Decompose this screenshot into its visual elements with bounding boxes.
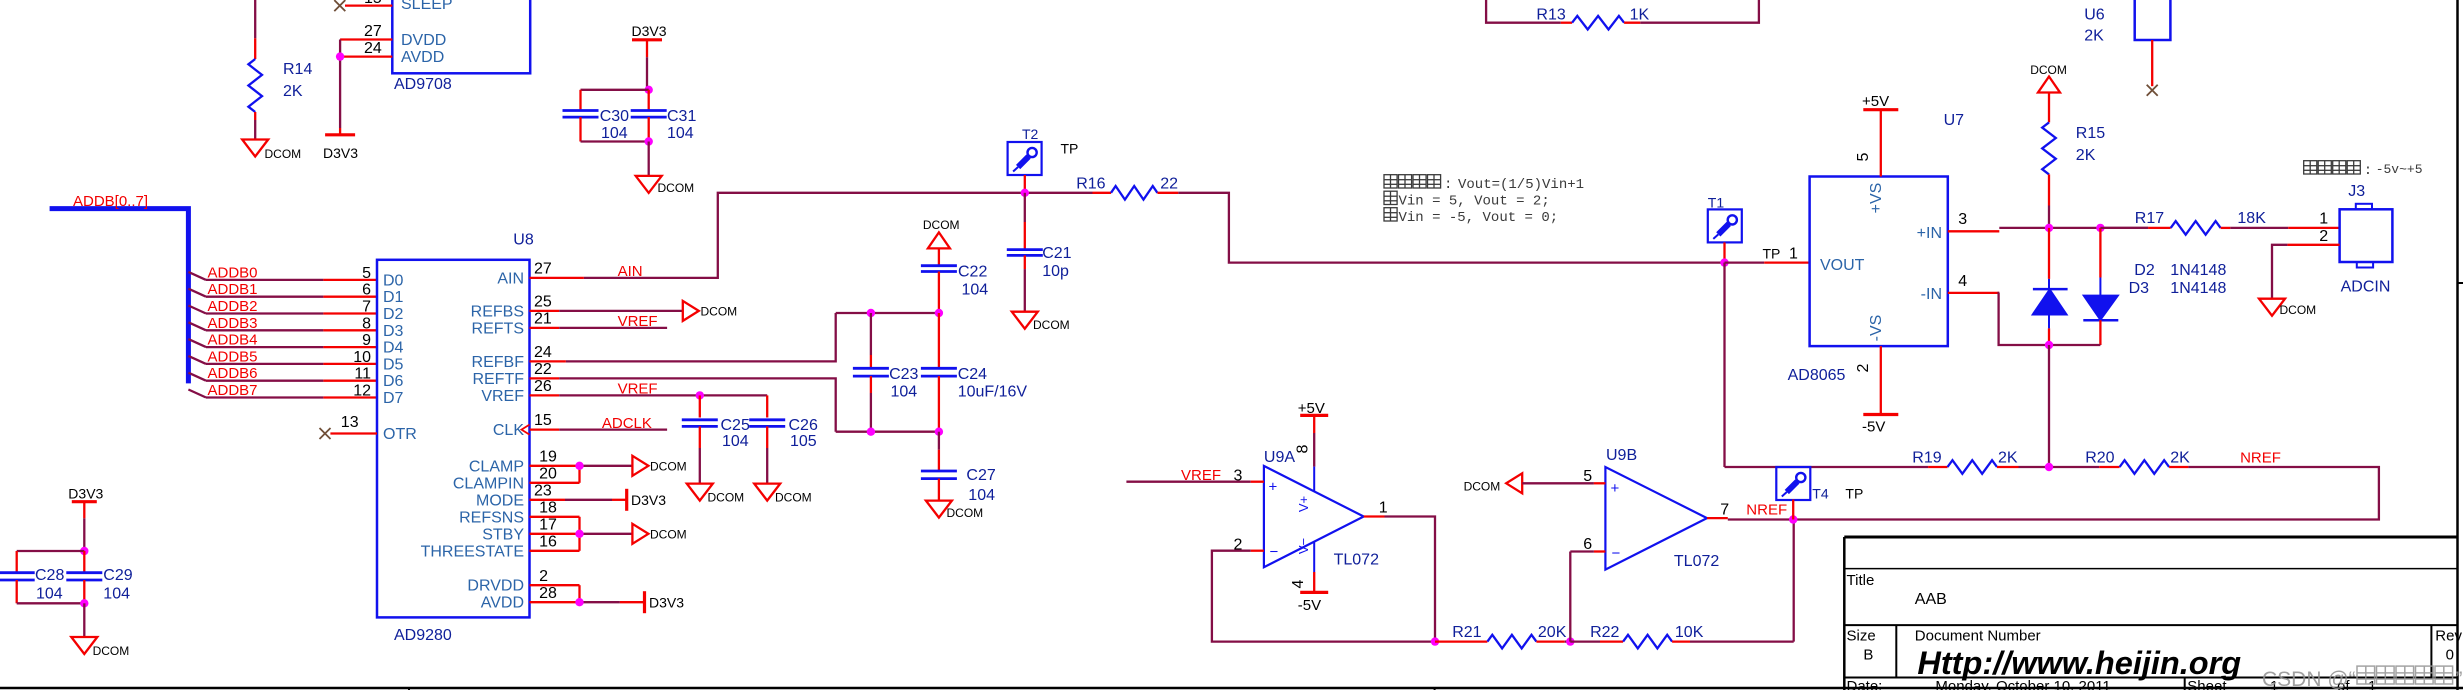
svg-text:Vin = -5, Vout = 0;: Vin = -5, Vout = 0; — [1399, 210, 1559, 226]
svg-text:R22: R22 — [1590, 624, 1619, 641]
power DCOM arrow up (C22) — [923, 218, 960, 266]
svg-text:4: 4 — [1958, 273, 1967, 290]
svg-text:CSDN @“: CSDN @“ — [2262, 668, 2356, 690]
svg-text:U7: U7 — [1944, 112, 1965, 129]
svg-text:-5V: -5V — [1298, 597, 1321, 614]
pin 23 wire MODE to D3V3 — [530, 482, 667, 510]
svg-text:10K: 10K — [1675, 624, 1704, 641]
svg-text:AIN: AIN — [497, 270, 524, 287]
power D3V3 (C28/C29) — [68, 485, 103, 551]
junction pin19 — [575, 462, 583, 470]
junction NREF/T4 — [1789, 515, 1797, 523]
pin 7 output NREF (U9B) — [1707, 502, 1793, 520]
wire R13 right — [1640, 0, 1759, 23]
wire +IN net — [1999, 227, 2148, 229]
svg-text:3: 3 — [1233, 468, 1242, 485]
svg-text:26: 26 — [534, 378, 552, 395]
svg-text:TL072: TL072 — [1674, 553, 1719, 570]
junction C30/C31 top — [645, 86, 653, 94]
svg-text:DCOM: DCOM — [650, 459, 687, 473]
svg-text:24: 24 — [534, 344, 552, 361]
wire top rail (C23/C24) — [836, 312, 939, 314]
resistor R13 1K — [1536, 7, 1649, 30]
svg-text:D3V3: D3V3 — [632, 23, 667, 39]
wire ADDB5 (pin 10) — [188, 348, 377, 366]
svg-text:DCOM: DCOM — [650, 527, 687, 541]
svg-text:AD8065: AD8065 — [1788, 367, 1846, 384]
junction AVDD — [336, 52, 344, 60]
wire J3 pin 2 to ground — [2272, 228, 2340, 299]
wire top to C30 — [581, 90, 649, 111]
svg-text:1: 1 — [1379, 500, 1388, 517]
pin 6 wire (U9B) — [1570, 536, 1605, 642]
svg-text:ADCIN: ADCIN — [2341, 279, 2391, 296]
svg-text:-IN: -IN — [1921, 286, 1942, 303]
wire bottom rail (C23/C24) — [836, 431, 939, 433]
svg-text:2: 2 — [539, 568, 548, 585]
svg-text:104: 104 — [891, 384, 918, 401]
svg-text:V+: V+ — [1296, 496, 1311, 512]
ground DCOM (C25) — [687, 484, 744, 505]
power D3V3 (C30/C31) — [632, 23, 667, 57]
svg-text:2: 2 — [2319, 228, 2328, 245]
svg-text:27: 27 — [534, 261, 552, 278]
wire ADDB2 (pin 7) — [188, 298, 377, 316]
svg-text:C31: C31 — [667, 108, 696, 125]
pin 3 stub (U9A) — [1233, 468, 1263, 485]
svg-text:REFBF: REFBF — [472, 354, 525, 371]
wire -IN to diode rail — [1999, 293, 2101, 345]
power +5V (U7) — [1855, 93, 1898, 177]
svg-text:NREF: NREF — [1746, 502, 1787, 519]
resistor R22 10K — [1570, 624, 1793, 648]
svg-text:22: 22 — [534, 361, 552, 378]
svg-text:25: 25 — [534, 294, 552, 311]
svg-text:VREF: VREF — [618, 313, 658, 330]
svg-text:10p: 10p — [1042, 263, 1069, 280]
svg-text:20: 20 — [539, 465, 557, 482]
svg-text:TP: TP — [1845, 486, 1863, 502]
svg-text:-5v~+5: -5v~+5 — [2376, 162, 2423, 177]
pin 3 stub +IN — [1948, 211, 2000, 231]
IC U8 AD9280 — [377, 232, 534, 645]
svg-text:TP: TP — [1763, 246, 1781, 262]
svg-text:19: 19 — [539, 448, 557, 465]
svg-text:DCOM: DCOM — [708, 491, 745, 505]
svg-text:R16: R16 — [1076, 176, 1105, 193]
junction +IN/D3 — [2096, 224, 2104, 232]
svg-text:AVDD: AVDD — [401, 49, 444, 66]
svg-text:5: 5 — [1855, 152, 1872, 161]
svg-text:ADCLK: ADCLK — [602, 415, 652, 432]
resistor R14 2K — [248, 38, 312, 120]
svg-text:−: − — [1612, 545, 1621, 562]
capacitor C25 104 — [682, 395, 750, 483]
svg-text:7: 7 — [362, 299, 371, 316]
junction pin17 — [575, 530, 583, 538]
testpoint T4 — [1776, 467, 1863, 520]
pin 1 output (U9A) — [1364, 500, 1435, 642]
pin 13 OTR no-connect — [320, 414, 378, 439]
pin 22 wire REFTF — [530, 361, 836, 432]
svg-text:104: 104 — [103, 585, 130, 602]
svg-text:27: 27 — [364, 23, 382, 40]
svg-text:−: − — [1270, 544, 1279, 561]
ground DCOM (C21) — [1012, 312, 1070, 332]
resistor R17 18K — [2100, 210, 2266, 235]
wire VOUT down to R19 row — [1723, 263, 1725, 467]
wire diode rail down to R19 row — [2048, 345, 2050, 467]
svg-text:18: 18 — [539, 499, 557, 516]
svg-text:15: 15 — [534, 412, 552, 429]
svg-text:DCOM: DCOM — [265, 147, 302, 161]
no-connect X (U6) — [2147, 85, 2158, 96]
power DCOM arrow (pin 19) — [632, 456, 686, 476]
svg-text:Title: Title — [1847, 572, 1875, 589]
junction R21/R22/U9B pin6 — [1566, 637, 1574, 645]
svg-text:C24: C24 — [958, 366, 987, 383]
svg-text:+: + — [1611, 480, 1620, 497]
svg-text:5: 5 — [1583, 468, 1592, 485]
svg-text:B: B — [1863, 647, 1873, 664]
wire R13 left — [1486, 0, 1561, 23]
svg-text:C25: C25 — [721, 417, 750, 434]
capacitor C24 10uF/16V — [921, 313, 1028, 432]
ground DCOM (C28/C29) — [71, 637, 129, 658]
pin 5 stub (U9B) — [1583, 468, 1605, 485]
svg-text:D4: D4 — [383, 340, 404, 357]
svg-text:AD9708: AD9708 — [394, 76, 452, 93]
svg-text:DCOM: DCOM — [2030, 63, 2067, 77]
svg-text:-5V: -5V — [1862, 419, 1885, 436]
svg-text:J3: J3 — [2348, 183, 2365, 200]
svg-text:2K: 2K — [283, 83, 303, 100]
svg-text:VOUT: VOUT — [1820, 257, 1865, 274]
junction C30/C31 bottom — [645, 137, 653, 145]
svg-text:DCOM: DCOM — [1033, 318, 1070, 332]
svg-text:R20: R20 — [2085, 450, 2114, 467]
svg-text:REFBS: REFBS — [471, 303, 524, 320]
wire top to C28 — [17, 551, 85, 573]
svg-text:TL072: TL072 — [1334, 552, 1379, 569]
svg-text:C29: C29 — [103, 567, 132, 584]
ground DCOM (C26) — [754, 484, 811, 505]
watermark — [2262, 666, 2463, 690]
resistor R20 2K — [2085, 450, 2190, 474]
svg-text:CLAMP: CLAMP — [469, 458, 524, 475]
pin 26 wire VREF — [530, 378, 768, 398]
svg-text:-VS: -VS — [1868, 315, 1885, 342]
junction T2/C21 — [1021, 189, 1029, 197]
capacitor C30 104 — [563, 108, 630, 142]
svg-text:7: 7 — [1720, 502, 1729, 519]
svg-text:8: 8 — [1295, 444, 1312, 453]
svg-text:ADDB3: ADDB3 — [208, 315, 258, 332]
svg-text:CLAMPIN: CLAMPIN — [453, 475, 524, 492]
svg-text:AD9280: AD9280 — [394, 627, 452, 644]
junction bottom rail C23 — [867, 428, 875, 436]
svg-text:2: 2 — [1855, 363, 1872, 372]
svg-text:U6: U6 — [2084, 6, 2105, 23]
svg-text:1: 1 — [2319, 211, 2328, 228]
wire to ground (C28/C29) — [83, 603, 85, 637]
op-amp U9B TL072 — [1605, 447, 1719, 570]
wire C30 bottom — [581, 117, 649, 141]
svg-text:Document Number: Document Number — [1915, 628, 2041, 645]
bus ADDB[0..7] — [50, 193, 189, 383]
svg-text:D3V3: D3V3 — [323, 145, 358, 161]
svg-text:R17: R17 — [2135, 210, 2164, 227]
svg-text:R14: R14 — [283, 61, 312, 78]
svg-text:23: 23 — [534, 482, 552, 499]
wire R14 to ground — [254, 120, 256, 140]
svg-text:2K: 2K — [1998, 450, 2018, 467]
IC AD9708 (partial) — [392, 0, 530, 93]
wire VOUT row to R19 — [1725, 466, 1929, 468]
svg-text:D0: D0 — [383, 272, 404, 289]
pin 27 DVDD wire — [340, 23, 392, 40]
testpoint T1 — [1708, 195, 1781, 263]
svg-text:5: 5 — [362, 265, 371, 282]
svg-text::: : — [1444, 177, 1452, 193]
svg-text:20K: 20K — [1538, 624, 1567, 641]
IC U7 AD8065 — [1788, 112, 1965, 384]
svg-text:SLEEP: SLEEP — [401, 0, 453, 13]
svg-text:28: 28 — [539, 585, 557, 602]
svg-text:CLK: CLK — [493, 422, 524, 439]
svg-text:C30: C30 — [600, 108, 629, 125]
capacitor C22 104 — [921, 264, 988, 314]
svg-text:105: 105 — [790, 433, 817, 450]
junction R19/R20/diodes — [2045, 463, 2053, 471]
svg-text:104: 104 — [667, 125, 694, 142]
ground DCOM (C30/C31) — [636, 176, 694, 195]
svg-text:DRVDD: DRVDD — [467, 578, 524, 595]
svg-text:11: 11 — [354, 366, 371, 383]
svg-text:ADDB0: ADDB0 — [208, 264, 258, 281]
pins 19/20 CLAMP wires — [530, 448, 633, 482]
svg-text:18K: 18K — [2237, 210, 2266, 227]
svg-text:DCOM: DCOM — [1464, 480, 1501, 494]
capacitor C26 105 — [749, 395, 818, 483]
svg-text:2K: 2K — [2084, 28, 2104, 45]
junction top rail C23 — [867, 309, 875, 317]
wire R14 top — [254, 0, 256, 38]
svg-text:T4: T4 — [1812, 486, 1829, 502]
svg-text:104: 104 — [968, 487, 995, 504]
svg-text:15: 15 — [364, 0, 382, 7]
ground DCOM (C27) — [926, 501, 983, 520]
svg-text:NREF: NREF — [2240, 450, 2281, 467]
svg-text:D3V3: D3V3 — [649, 594, 684, 610]
net label VREF wire (U9A) — [1126, 467, 1250, 484]
svg-text:D1: D1 — [383, 289, 404, 306]
svg-text:16: 16 — [539, 533, 557, 550]
svg-text:Size: Size — [1847, 628, 1876, 645]
svg-text:VREF: VREF — [481, 388, 524, 405]
svg-text:1: 1 — [1789, 246, 1798, 263]
wire DVDD/AVDD to D3V3 — [339, 40, 341, 129]
component U6 2K — [2084, 0, 2170, 86]
svg-text:ADDB2: ADDB2 — [208, 298, 258, 315]
annotation conversion formula — [1384, 175, 1584, 226]
svg-text:U8: U8 — [513, 232, 534, 249]
resistor R15 2K — [2042, 122, 2105, 227]
svg-text:REFSNS: REFSNS — [459, 509, 524, 526]
pin 25 wire REFBS to DCOM — [530, 294, 683, 311]
junction C28/C29 top — [80, 547, 88, 555]
junction T1/VOUT — [1720, 258, 1728, 266]
wire R17 to J3 pin 1 — [2230, 211, 2339, 228]
pin 27 wire AIN — [530, 261, 643, 281]
svg-text:D3: D3 — [383, 323, 404, 340]
svg-text:DCOM: DCOM — [701, 305, 738, 319]
wire ADDB4 (pin 9) — [188, 332, 377, 350]
svg-text:T2: T2 — [1022, 126, 1039, 142]
svg-text:6: 6 — [362, 282, 371, 299]
svg-text:ADDB4: ADDB4 — [208, 332, 258, 349]
svg-text:2K: 2K — [2076, 147, 2096, 164]
svg-text:C22: C22 — [958, 264, 987, 281]
svg-text:1K: 1K — [1630, 7, 1650, 24]
svg-text:REFTF: REFTF — [472, 371, 524, 388]
svg-text:ADDB1: ADDB1 — [208, 281, 258, 298]
svg-text:C26: C26 — [789, 417, 818, 434]
wire to ground (C30/C31) — [648, 142, 650, 176]
svg-text:R19: R19 — [1912, 450, 1941, 467]
svg-text:ADDB6: ADDB6 — [208, 365, 258, 382]
svg-text:T1: T1 — [1708, 195, 1725, 211]
svg-text:10: 10 — [353, 349, 371, 366]
svg-text:DCOM: DCOM — [658, 181, 695, 195]
power DCOM arrow up (R15) — [2030, 63, 2067, 122]
power DCOM arrow left (U9B pin 5) — [1464, 473, 1594, 493]
svg-text:THREESTATE: THREESTATE — [421, 543, 524, 560]
junction diode rail — [2045, 341, 2053, 349]
svg-text:V−: V− — [1296, 538, 1311, 554]
svg-text:VREF: VREF — [618, 381, 658, 398]
svg-text:+5V: +5V — [1862, 93, 1889, 110]
svg-text:R15: R15 — [2076, 125, 2105, 142]
svg-text:0: 0 — [2446, 647, 2454, 664]
svg-text:D2: D2 — [2134, 262, 2155, 279]
annotation input range — [2304, 161, 2423, 179]
svg-text:1N4148: 1N4148 — [2170, 280, 2226, 297]
title block — [1844, 537, 2462, 690]
op-amp U9A TL072 — [1264, 449, 1379, 569]
svg-text:ADDB5: ADDB5 — [208, 348, 258, 365]
svg-text:Vout=(1/5)Vin+1: Vout=(1/5)Vin+1 — [1458, 177, 1584, 193]
svg-text:Http://www.heijin.org: Http://www.heijin.org — [1917, 645, 2241, 681]
junction pin28 — [575, 598, 583, 606]
power -5V (U9A pin 4) — [1290, 542, 1328, 614]
svg-text:C28: C28 — [35, 567, 64, 584]
junction C28/C29 bottom — [80, 599, 88, 607]
svg-text:C21: C21 — [1042, 245, 1071, 262]
svg-text:R13: R13 — [1536, 7, 1565, 24]
pins 18/17/16 wires — [530, 499, 633, 550]
svg-text:ADDB7: ADDB7 — [208, 382, 258, 399]
svg-text:2K: 2K — [2170, 450, 2190, 467]
svg-text:104: 104 — [36, 585, 63, 602]
wire R22 up to NREF — [1793, 520, 1795, 642]
svg-text:8: 8 — [362, 315, 371, 332]
pin 24 wire REFBF — [530, 313, 836, 361]
svg-text:D5: D5 — [383, 356, 404, 373]
wire C28 bottom — [17, 580, 85, 603]
svg-text:DCOM: DCOM — [93, 644, 130, 658]
pin 24 AVDD wire — [340, 40, 392, 57]
capacitor C23 104 — [853, 313, 919, 432]
wire ADDB3 (pin 8) — [188, 315, 377, 333]
capacitor C27 104 — [921, 432, 996, 504]
power D3V3 (AD9708) — [323, 128, 358, 161]
wire ADDB6 (pin 11) — [188, 365, 377, 383]
diode D2 1N4148 — [2032, 228, 2226, 345]
svg-text:REFTS: REFTS — [472, 320, 524, 337]
power DCOM arrow (pin 25) — [683, 301, 737, 321]
wire NREF loop — [1793, 450, 2379, 520]
svg-text:DCOM: DCOM — [947, 506, 984, 520]
junction +IN/R15/D2 — [2045, 224, 2053, 232]
junction VREF/C25 — [696, 391, 704, 399]
diode D3 1N4148 — [2083, 228, 2226, 345]
svg-text:104: 104 — [601, 125, 628, 142]
svg-text:OTR: OTR — [383, 426, 417, 443]
pin 15 no-connect at SLEEP — [334, 0, 392, 11]
resistor R21 20K — [1435, 624, 1570, 648]
wire R16 to T1 — [1178, 193, 1724, 263]
svg-text:C27: C27 — [966, 467, 995, 484]
svg-text:+IN: +IN — [1917, 225, 1942, 242]
pin 4 stub -IN — [1948, 273, 2000, 293]
svg-text:MODE: MODE — [476, 492, 524, 509]
svg-text:17: 17 — [539, 516, 557, 533]
svg-text:DCOM: DCOM — [923, 218, 960, 232]
svg-text:D7: D7 — [383, 390, 404, 407]
wire ADDB0 (pin 5) — [188, 264, 377, 282]
svg-text:24: 24 — [364, 40, 382, 57]
testpoint T2 — [1008, 126, 1079, 193]
svg-text:22: 22 — [1160, 176, 1178, 193]
svg-text:D3: D3 — [2129, 280, 2150, 297]
svg-text:DCOM: DCOM — [775, 491, 812, 505]
power -5V (U7) — [1855, 346, 1898, 435]
svg-text:C23: C23 — [889, 366, 918, 383]
wire ADDB1 (pin 6) — [188, 281, 377, 299]
svg-text::: : — [2364, 163, 2372, 179]
svg-text:STBY: STBY — [482, 526, 524, 543]
pin 15 wire ADCLK — [530, 412, 668, 432]
capacitor C29 104 — [66, 551, 132, 603]
capacitor C21 10p — [1007, 193, 1072, 312]
svg-text:VREF: VREF — [1181, 467, 1221, 484]
svg-text:104: 104 — [722, 433, 749, 450]
svg-text:R21: R21 — [1452, 624, 1481, 641]
pin 1 stub U7 — [1725, 246, 1810, 263]
svg-text:ADDB[0..7]: ADDB[0..7] — [73, 193, 148, 210]
svg-text:AVDD: AVDD — [481, 595, 524, 612]
svg-text:+: + — [1269, 479, 1278, 496]
wire D3V3 to C31 — [646, 57, 648, 90]
svg-text:+VS: +VS — [1868, 183, 1885, 214]
svg-text:D3V3: D3V3 — [631, 492, 666, 508]
svg-text:13: 13 — [341, 414, 359, 431]
svg-text:AAB: AAB — [1915, 591, 1947, 608]
svg-text:”: ” — [2456, 668, 2463, 690]
svg-text:104: 104 — [962, 282, 989, 299]
svg-text:D2: D2 — [383, 306, 404, 323]
